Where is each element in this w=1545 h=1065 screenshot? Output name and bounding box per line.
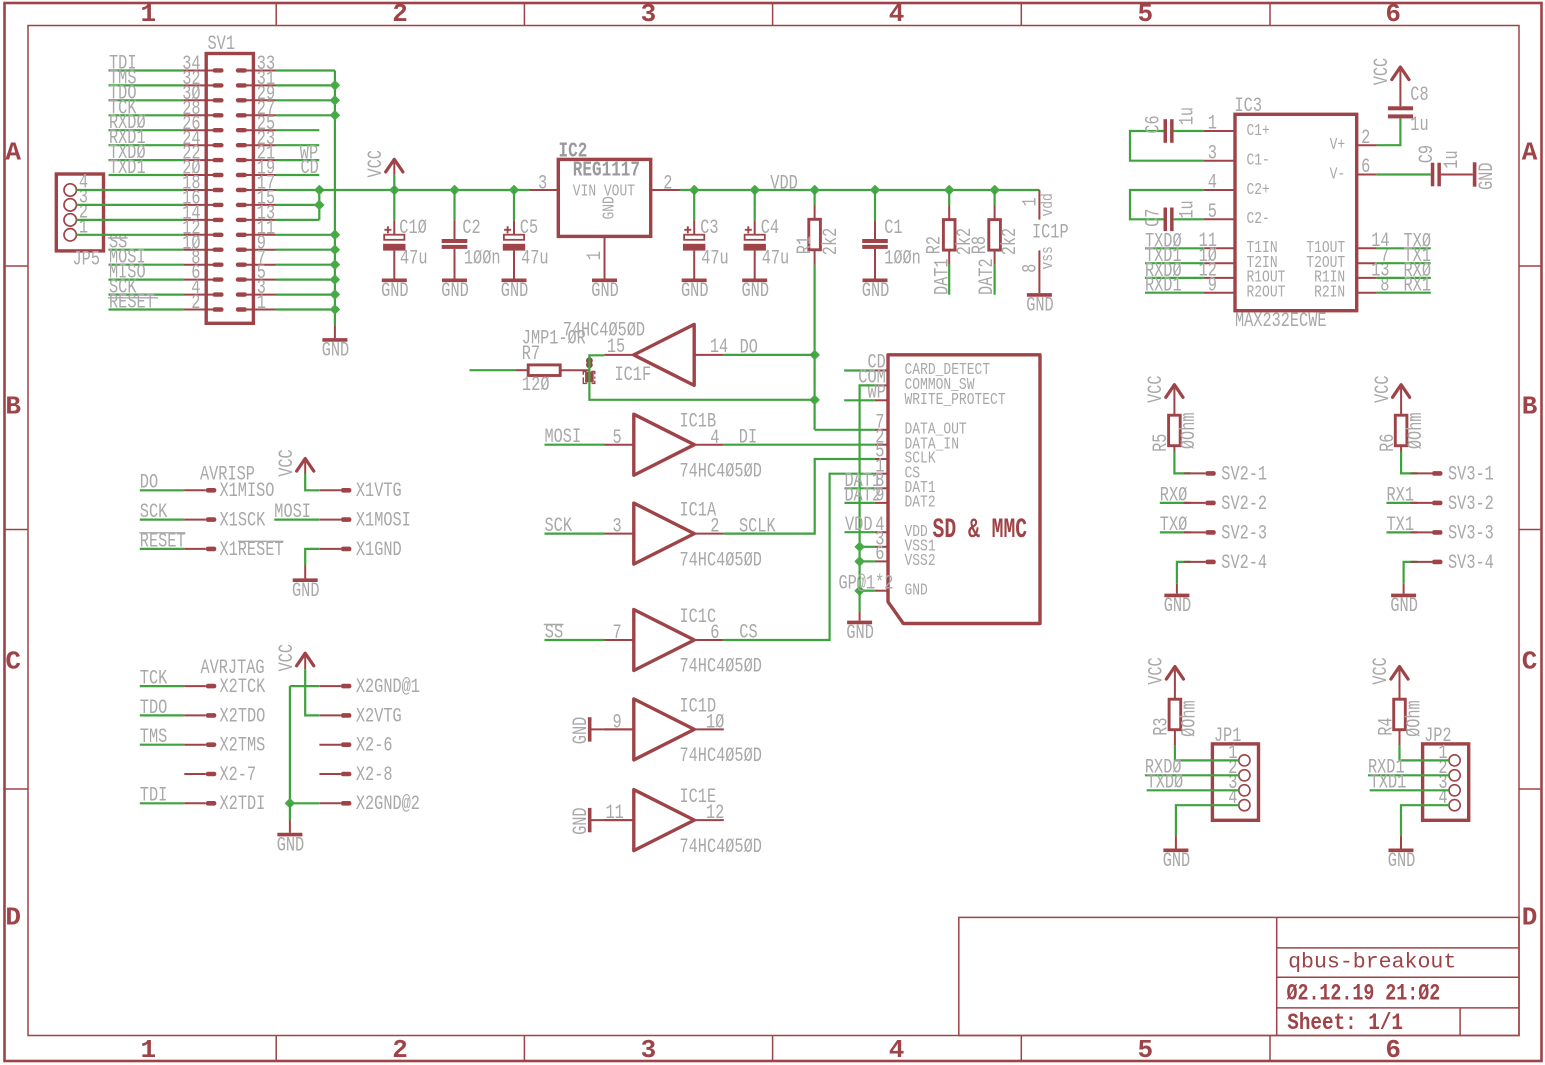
buffer IC1F 74HC4050D (mirrored) bbox=[563, 319, 729, 387]
svg-text:WRITE_PROTECT: WRITE_PROTECT bbox=[905, 391, 1006, 410]
svg-text:CS: CS bbox=[739, 622, 757, 645]
connector JP1 bbox=[1212, 725, 1258, 821]
net RXD0 wire to SV1 pin 26 bbox=[109, 112, 185, 135]
net SCLK from IC1A to card bbox=[724, 459, 875, 538]
svg-text:VCC: VCC bbox=[1146, 657, 1169, 685]
svg-text:1u: 1u bbox=[1176, 107, 1199, 125]
svg-text:TDO: TDO bbox=[140, 697, 168, 720]
svg-text:5: 5 bbox=[613, 427, 622, 450]
svg-text:74HC4Ø5ØD: 74HC4Ø5ØD bbox=[680, 460, 762, 483]
svg-text:DAT2: DAT2 bbox=[976, 258, 999, 295]
svg-text:6: 6 bbox=[1361, 156, 1370, 179]
capacitor C10 47u bbox=[381, 190, 427, 303]
svg-text:R2IN: R2IN bbox=[1314, 284, 1345, 303]
buffer IC1D 74HC4050D input grounded bbox=[605, 695, 762, 768]
svg-text:3: 3 bbox=[641, 1035, 657, 1065]
svg-text:X2VTG: X2VTG bbox=[356, 705, 402, 728]
svg-text:R6: R6 bbox=[1377, 434, 1400, 452]
connector JP2 bbox=[1423, 725, 1469, 821]
svg-text:vdd: vdd bbox=[1039, 193, 1058, 216]
net MOSI to X1MOSI pin bbox=[274, 501, 411, 533]
svg-text:SV2-1: SV2-1 bbox=[1221, 463, 1267, 486]
svg-text:MAX232ECWE: MAX232ECWE bbox=[1235, 310, 1327, 333]
svg-text:47u: 47u bbox=[400, 247, 428, 270]
svg-text:IC1P: IC1P bbox=[1032, 221, 1069, 244]
pin X2-7 unconnected bbox=[184, 764, 256, 787]
svg-text:6: 6 bbox=[1385, 0, 1401, 29]
svg-text:C7: C7 bbox=[1143, 209, 1166, 227]
svg-text:X2-8: X2-8 bbox=[356, 764, 393, 787]
svg-text:12: 12 bbox=[706, 802, 724, 825]
svg-text:2: 2 bbox=[392, 1035, 408, 1065]
svg-text:3: 3 bbox=[613, 516, 622, 539]
svg-text:X2-7: X2-7 bbox=[220, 764, 257, 787]
wire VDD rail IC2 VOUT to IC1P bbox=[680, 172, 1040, 195]
svg-text:R5: R5 bbox=[1150, 434, 1173, 452]
svg-text:3: 3 bbox=[641, 0, 657, 29]
svg-text:B: B bbox=[1522, 392, 1538, 422]
net TDI to X2TDI pin bbox=[140, 785, 265, 817]
svg-text:C1: C1 bbox=[884, 217, 902, 240]
net TX0 from IC3 bbox=[1377, 230, 1431, 253]
net DO to X1MISO pin bbox=[140, 472, 275, 504]
net CS from IC1C to card bbox=[724, 474, 875, 645]
net RXD0 to JP1 pin 2 bbox=[1145, 757, 1239, 780]
svg-text:TCK: TCK bbox=[140, 668, 168, 691]
svg-text:TX1: TX1 bbox=[1387, 514, 1415, 537]
svg-text:C2+: C2+ bbox=[1247, 181, 1270, 200]
svg-text:DAT2: DAT2 bbox=[905, 494, 936, 513]
svg-text:C2: C2 bbox=[462, 217, 480, 240]
svg-text:MOSI: MOSI bbox=[545, 426, 582, 449]
svg-text:74HC4Ø5ØD: 74HC4Ø5ØD bbox=[563, 319, 645, 342]
net SCK to X1SCK pin bbox=[140, 501, 265, 533]
svg-text:DO: DO bbox=[140, 472, 158, 495]
svg-text:GND: GND bbox=[277, 834, 305, 857]
ground to SV2-4 bbox=[1164, 552, 1267, 618]
svg-text:V+: V+ bbox=[1330, 136, 1346, 155]
svg-text:GND: GND bbox=[681, 280, 709, 303]
svg-text:C4: C4 bbox=[761, 217, 779, 240]
svg-text:TXØ: TXØ bbox=[1160, 514, 1188, 537]
svg-text:X1GND: X1GND bbox=[356, 539, 402, 562]
wire JMP1 to IC1F input pin 15 bbox=[589, 355, 604, 382]
svg-text:GND: GND bbox=[1026, 295, 1054, 318]
svg-text:1: 1 bbox=[584, 251, 607, 260]
svg-text:5: 5 bbox=[1137, 1035, 1153, 1065]
svg-text:RESET: RESET bbox=[109, 292, 155, 315]
net WP at SV1 pin 21 bbox=[276, 142, 320, 165]
svg-text:47u: 47u bbox=[521, 247, 549, 270]
ground symbol below IC1P bbox=[1026, 295, 1054, 318]
wire R4 to JP2 pin 1 bbox=[1400, 730, 1450, 761]
svg-text:1ØØn: 1ØØn bbox=[884, 247, 921, 270]
svg-text:12Ø: 12Ø bbox=[522, 374, 550, 397]
svg-text:ØOhm: ØOhm bbox=[1178, 413, 1201, 450]
net RX1 to SV3-2 bbox=[1387, 484, 1494, 516]
net TXD0 wire to SV1 pin 22 bbox=[109, 142, 185, 165]
svg-text:47u: 47u bbox=[762, 247, 790, 270]
svg-text:C: C bbox=[1522, 647, 1538, 677]
svg-text:C3: C3 bbox=[700, 217, 718, 240]
wire R3 to JP1 pin 1 bbox=[1175, 730, 1239, 761]
power VCC above R4 bbox=[1370, 657, 1408, 699]
svg-text:R4: R4 bbox=[1375, 718, 1398, 736]
wire R1 to DATA_OUT with DO and WP taps bbox=[809, 265, 875, 430]
RS232 transceiver IC3 MAX232ECWE bbox=[1199, 95, 1390, 333]
net COM wire COMMON_SW to ground rail bbox=[854, 367, 886, 596]
svg-text:V-: V- bbox=[1330, 165, 1346, 184]
wire VCC rail SV1 to IC2 VIN bbox=[319, 185, 529, 196]
svg-text:X1VTG: X1VTG bbox=[356, 480, 402, 503]
svg-text:1u: 1u bbox=[1176, 200, 1199, 218]
svg-text:SV3-2: SV3-2 bbox=[1448, 493, 1494, 516]
connector SV1 bbox=[182, 33, 275, 323]
svg-text:4: 4 bbox=[1208, 172, 1217, 195]
svg-text:74HC4Ø5ØD: 74HC4Ø5ØD bbox=[680, 549, 762, 572]
pin X2-6 unconnected bbox=[319, 735, 392, 758]
net DAT2 stub at card bbox=[845, 485, 882, 508]
svg-text:vss: vss bbox=[1039, 246, 1058, 269]
svg-text:GND: GND bbox=[1163, 850, 1191, 873]
power VCC to X2VTG pin bbox=[276, 644, 402, 728]
resistor R4 0Ohm bbox=[1375, 699, 1426, 737]
wire R6 to SV3-1 bbox=[1401, 446, 1417, 474]
resistor R7 120 bbox=[470, 327, 590, 397]
power VCC to X1VTG pin bbox=[276, 449, 402, 503]
resistor R8 2k2 DAT2 pull-up bbox=[969, 190, 1022, 265]
svg-text:GND: GND bbox=[1390, 595, 1418, 618]
svg-text:C9: C9 bbox=[1416, 145, 1439, 163]
svg-text:X1SCK: X1SCK bbox=[220, 510, 266, 533]
svg-text:JP5: JP5 bbox=[73, 249, 101, 272]
svg-text:9: 9 bbox=[1208, 274, 1217, 297]
net RXD1 to JP2 pin 2 bbox=[1368, 757, 1449, 780]
svg-text:6: 6 bbox=[875, 543, 884, 566]
svg-text:X2TMS: X2TMS bbox=[220, 735, 266, 758]
pin SV2-1 bbox=[1184, 463, 1267, 486]
svg-text:6: 6 bbox=[1385, 1035, 1401, 1065]
svg-text:GND: GND bbox=[1388, 850, 1416, 873]
power VCC above R3 bbox=[1146, 657, 1184, 699]
svg-text:R2: R2 bbox=[924, 236, 947, 254]
wire SV1 pin 23 stub bbox=[276, 144, 320, 146]
svg-text:X1RESET: X1RESET bbox=[220, 539, 284, 562]
net SS wire to SV1 pin 10 bbox=[108, 232, 184, 255]
net TCK to X2TCK pin bbox=[140, 668, 265, 700]
net RX1 from IC3 bbox=[1377, 275, 1431, 298]
net TXD0 to JP1 pin 3 bbox=[1147, 772, 1239, 795]
svg-text:SV3-4: SV3-4 bbox=[1448, 552, 1494, 575]
svg-text:TMS: TMS bbox=[140, 726, 168, 749]
svg-text:R2OUT: R2OUT bbox=[1247, 284, 1286, 303]
net VCC wires SV1 pins 17 15 13 bbox=[276, 185, 325, 220]
svg-text:VCC: VCC bbox=[276, 449, 299, 477]
svg-text:4: 4 bbox=[889, 0, 905, 29]
net RXD1 wire to SV1 pin 24 bbox=[109, 127, 185, 150]
svg-text:GND: GND bbox=[292, 580, 320, 603]
net DAT1 stub below R2 bbox=[932, 258, 955, 295]
net TXD1 into IC3 bbox=[1145, 245, 1203, 268]
net TX1 from IC3 bbox=[1377, 245, 1431, 268]
svg-text:6: 6 bbox=[710, 622, 719, 645]
svg-text:RX1: RX1 bbox=[1404, 275, 1432, 298]
capacitor C7 1u bbox=[1130, 190, 1203, 231]
svg-text:C5: C5 bbox=[520, 217, 538, 240]
svg-text:GND: GND bbox=[570, 807, 593, 835]
svg-text:VCC: VCC bbox=[365, 150, 388, 178]
svg-text:2: 2 bbox=[710, 516, 719, 539]
buffer IC1A 74HC4050D bbox=[605, 500, 762, 573]
net RX0 to SV2-2 bbox=[1160, 484, 1267, 516]
svg-text:9: 9 bbox=[613, 712, 622, 735]
net CD stub at card CARD_DETECT bbox=[844, 352, 886, 375]
svg-text:1u: 1u bbox=[1441, 150, 1464, 168]
svg-text:GND: GND bbox=[501, 280, 529, 303]
net MOSI wire to SV1 pin 8 bbox=[109, 247, 185, 270]
svg-text:TXDØ: TXDØ bbox=[1147, 772, 1184, 795]
svg-text:C1+: C1+ bbox=[1247, 122, 1270, 141]
wire SV1 pin 25 stub bbox=[276, 129, 320, 131]
capacitor C4 47u bbox=[742, 190, 790, 303]
svg-text:X2TCK: X2TCK bbox=[220, 676, 266, 699]
svg-text:MOSI: MOSI bbox=[274, 501, 311, 524]
net DAT1 stub at card bbox=[845, 470, 882, 493]
svg-text:X1MISO: X1MISO bbox=[220, 480, 275, 503]
net TDO wire to SV1 pin 30 bbox=[109, 82, 185, 105]
svg-text:GND: GND bbox=[570, 717, 593, 745]
svg-text:4: 4 bbox=[889, 1035, 905, 1065]
svg-text:GND: GND bbox=[905, 581, 928, 600]
title block bbox=[959, 917, 1519, 1036]
svg-text:GND: GND bbox=[862, 280, 890, 303]
svg-text:TXD1: TXD1 bbox=[109, 157, 146, 180]
svg-text:D: D bbox=[1522, 903, 1538, 933]
svg-text:SCK: SCK bbox=[545, 515, 573, 538]
svg-text:VCC: VCC bbox=[1370, 657, 1393, 685]
net MOSI into IC1B bbox=[545, 426, 605, 449]
ground to SV3-4 bbox=[1390, 552, 1493, 618]
net TDO to X2TDO pin bbox=[140, 697, 265, 729]
net TXD1 to JP2 pin 3 bbox=[1370, 772, 1449, 795]
ground to JP1 pin 4 bbox=[1163, 805, 1239, 873]
net VDD stub at card bbox=[845, 514, 875, 537]
svg-text:RXØ: RXØ bbox=[1160, 484, 1188, 507]
svg-text:A: A bbox=[1522, 138, 1538, 168]
svg-text:1Ø: 1Ø bbox=[706, 712, 724, 735]
svg-text:ØOhm: ØOhm bbox=[1405, 413, 1428, 450]
svg-text:Ø2.12.19 21:Ø2: Ø2.12.19 21:Ø2 bbox=[1287, 980, 1441, 1006]
svg-text:X2GND@2: X2GND@2 bbox=[356, 793, 420, 816]
svg-text:DO: DO bbox=[740, 336, 758, 359]
resistor R6 0Ohm bbox=[1377, 413, 1428, 452]
net TCK wire to SV1 pin 28 bbox=[109, 97, 185, 120]
svg-text:1: 1 bbox=[140, 0, 156, 29]
net DO from IC1F pin 14 to R1 column bbox=[724, 336, 815, 359]
svg-text:A: A bbox=[5, 138, 21, 168]
svg-text:VSS2: VSS2 bbox=[905, 552, 936, 571]
power VCC above R5 bbox=[1145, 376, 1183, 416]
svg-text:SV2-4: SV2-4 bbox=[1221, 552, 1267, 575]
svg-text:DAT2: DAT2 bbox=[845, 485, 882, 508]
solder jumper JMP1 bbox=[583, 355, 595, 383]
svg-text:RXD1: RXD1 bbox=[1145, 275, 1182, 298]
svg-text:RX1: RX1 bbox=[1387, 484, 1415, 507]
net RESET wire to SV1 pin 2 bbox=[108, 292, 184, 315]
net WP stub at card WRITE_PROTECT bbox=[844, 382, 886, 405]
pin X2-8 unconnected bbox=[319, 764, 392, 787]
svg-text:C1Ø: C1Ø bbox=[399, 217, 427, 240]
power pins IC1P of 74HC4050 bbox=[1020, 190, 1069, 293]
buffer IC1B 74HC4050D bbox=[605, 411, 762, 484]
svg-text:74HC4Ø5ØD: 74HC4Ø5ØD bbox=[680, 836, 762, 859]
net TX1 to SV3-3 bbox=[1387, 514, 1494, 546]
svg-text:SV1: SV1 bbox=[208, 33, 236, 56]
buffer IC1E 74HC4050D input grounded bbox=[605, 786, 762, 859]
net RX0 from IC3 bbox=[1377, 260, 1431, 283]
svg-text:D: D bbox=[5, 903, 21, 933]
svg-text:GND: GND bbox=[591, 280, 619, 303]
wire JMP1 bottom to WP row junction bbox=[589, 383, 814, 400]
ground bus to X2GND pins bbox=[277, 676, 420, 857]
connector JP5 bbox=[56, 172, 103, 272]
svg-text:3: 3 bbox=[538, 172, 547, 195]
svg-text:VDD: VDD bbox=[770, 172, 798, 195]
ground to JP2 pin 4 bbox=[1388, 805, 1449, 873]
svg-text:DI: DI bbox=[739, 426, 757, 449]
net TXD1 wire to SV1 pin 20 bbox=[109, 157, 185, 180]
svg-text:2: 2 bbox=[663, 172, 672, 195]
ground symbol at IC1E input bbox=[570, 807, 634, 835]
IC2 GND pin 1 to ground bbox=[584, 236, 619, 303]
power VCC arrow above rail bbox=[365, 150, 403, 190]
svg-text:B: B bbox=[5, 392, 21, 422]
svg-text:5: 5 bbox=[1137, 0, 1153, 29]
net TMS to X2TMS pin bbox=[140, 726, 265, 758]
svg-text:Sheet: 1/1: Sheet: 1/1 bbox=[1287, 1010, 1403, 1036]
svg-text:C8: C8 bbox=[1410, 84, 1428, 107]
svg-text:ØOhm: ØOhm bbox=[1403, 700, 1426, 737]
svg-text:3: 3 bbox=[1208, 142, 1217, 165]
capacitor C1 100n bbox=[862, 190, 921, 303]
net TXD0 into IC3 bbox=[1145, 230, 1203, 253]
svg-text:X2GND@1: X2GND@1 bbox=[356, 676, 420, 699]
svg-text:VDD: VDD bbox=[845, 514, 873, 537]
svg-text:2: 2 bbox=[392, 0, 408, 29]
pin SV3-1 bbox=[1411, 463, 1494, 486]
svg-text:SV2-2: SV2-2 bbox=[1221, 493, 1267, 516]
svg-text:GND: GND bbox=[601, 196, 620, 219]
svg-text:2: 2 bbox=[191, 292, 200, 315]
capacitor C9 1u to ground bbox=[1377, 145, 1499, 190]
net MISO wire to SV1 pin 6 bbox=[109, 262, 185, 285]
resistor R2 2k2 DAT1 pull-up bbox=[924, 190, 977, 265]
svg-text:47u: 47u bbox=[701, 247, 729, 270]
svg-text:1u: 1u bbox=[1410, 114, 1428, 137]
net SCK wire to SV1 pin 4 bbox=[109, 277, 185, 300]
net RXD1 into IC3 bbox=[1145, 275, 1203, 298]
svg-text:1: 1 bbox=[1208, 113, 1217, 136]
capacitor C2 100n bbox=[441, 190, 500, 303]
svg-text:VCC: VCC bbox=[1371, 58, 1394, 86]
svg-text:TXD1: TXD1 bbox=[1370, 772, 1407, 795]
svg-text:GND: GND bbox=[742, 280, 770, 303]
svg-text:X1MOSI: X1MOSI bbox=[356, 510, 411, 533]
svg-text:GND: GND bbox=[1164, 595, 1192, 618]
net TDI wire to SV1 pin 34 bbox=[109, 53, 185, 76]
voltage regulator IC2 REG1117 bbox=[529, 140, 679, 236]
svg-text:SD & MMC: SD & MMC bbox=[933, 515, 1028, 546]
resistor R5 0Ohm bbox=[1150, 413, 1201, 452]
svg-text:GND: GND bbox=[1476, 163, 1499, 191]
ground to X1GND pin bbox=[292, 539, 402, 603]
capacitor C8 1u with VCC bbox=[1371, 58, 1429, 145]
svg-text:X2TDO: X2TDO bbox=[220, 705, 266, 728]
svg-text:C1-: C1- bbox=[1247, 152, 1270, 171]
net TX0 to SV2-3 bbox=[1160, 514, 1267, 546]
capacitor C6 1u bbox=[1130, 107, 1203, 161]
net SS into IC1C bbox=[544, 622, 605, 645]
net RESET to X1RESET pin bbox=[139, 530, 283, 562]
svg-text:R7: R7 bbox=[522, 343, 540, 366]
svg-text:VCC: VCC bbox=[276, 644, 299, 672]
svg-text:7: 7 bbox=[613, 622, 622, 645]
svg-text:5: 5 bbox=[1208, 201, 1217, 224]
svg-text:IC1F: IC1F bbox=[615, 364, 652, 387]
svg-text:2k2: 2k2 bbox=[820, 228, 843, 256]
SD and MMC card socket bbox=[875, 355, 1040, 624]
svg-text:qbus-breakout: qbus-breakout bbox=[1288, 951, 1456, 974]
svg-text:SV3-1: SV3-1 bbox=[1448, 463, 1494, 486]
svg-text:R8: R8 bbox=[969, 236, 992, 254]
svg-text:GND: GND bbox=[381, 280, 409, 303]
net TMS wire to SV1 pin 32 bbox=[109, 67, 185, 90]
net SCK into IC1A bbox=[545, 515, 605, 538]
net CD at SV1 pin 19 bbox=[276, 157, 320, 180]
svg-text:VCC: VCC bbox=[1145, 376, 1168, 404]
svg-text:X2-6: X2-6 bbox=[356, 735, 393, 758]
ground symbol below card bbox=[846, 591, 874, 646]
svg-text:RESET: RESET bbox=[140, 530, 186, 553]
svg-text:SV3-3: SV3-3 bbox=[1448, 522, 1494, 545]
svg-text:74HC4Ø5ØD: 74HC4Ø5ØD bbox=[680, 656, 762, 679]
svg-text:2k2: 2k2 bbox=[999, 228, 1022, 256]
capacitor C3 47u bbox=[681, 190, 729, 303]
svg-text:1: 1 bbox=[140, 1035, 156, 1065]
svg-text:C6: C6 bbox=[1143, 115, 1166, 133]
net DAT2 stub below R8 bbox=[976, 258, 999, 295]
ground symbol at IC1D input bbox=[570, 717, 634, 745]
svg-text:GND: GND bbox=[441, 280, 469, 303]
net DI from IC1B to card DATA_IN bbox=[724, 426, 875, 449]
svg-text:REG1117: REG1117 bbox=[573, 160, 640, 183]
svg-text:11: 11 bbox=[606, 802, 624, 825]
svg-text:TDI: TDI bbox=[140, 785, 168, 808]
net GND bus right of SV1 bbox=[276, 71, 341, 339]
svg-text:GP@1*2: GP@1*2 bbox=[839, 572, 894, 595]
svg-text:GND: GND bbox=[846, 622, 874, 645]
svg-text:4: 4 bbox=[710, 427, 719, 450]
svg-text:COM: COM bbox=[858, 367, 886, 390]
svg-text:R3: R3 bbox=[1151, 718, 1174, 736]
svg-text:SV2-3: SV2-3 bbox=[1221, 522, 1267, 545]
svg-text:CD: CD bbox=[301, 157, 319, 180]
svg-text:R1: R1 bbox=[794, 236, 817, 254]
svg-text:X2TDI: X2TDI bbox=[220, 793, 266, 816]
resistor R1 2k2 pull-up bbox=[794, 190, 843, 265]
svg-text:C2-: C2- bbox=[1247, 210, 1270, 229]
svg-text:74HC4Ø5ØD: 74HC4Ø5ØD bbox=[680, 745, 762, 768]
